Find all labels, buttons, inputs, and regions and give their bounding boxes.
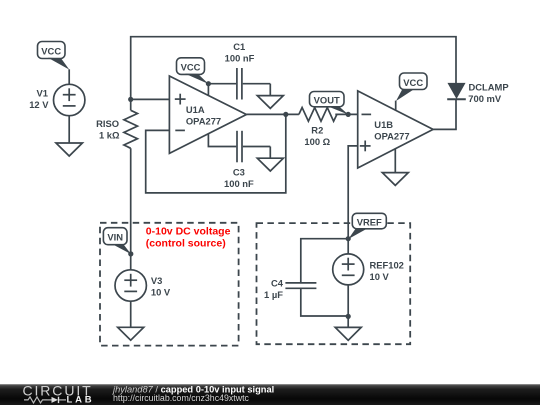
svg-text:10 V: 10 V <box>151 286 171 297</box>
node VOUT junction dot <box>346 112 351 117</box>
svg-text:VREF: VREF <box>357 216 382 227</box>
node REF102 ground junction dot <box>346 314 351 319</box>
wire R2 to U1B - input <box>335 113 357 115</box>
voltage source V3 <box>115 270 171 328</box>
ground at C1 <box>257 96 283 109</box>
svg-text:U1B: U1B <box>374 119 393 130</box>
ground at C3 <box>257 158 283 171</box>
svg-text:C3: C3 <box>233 167 245 178</box>
svg-text:REF102: REF102 <box>370 259 404 270</box>
svg-text:0-10v DC voltage: 0-10v DC voltage <box>146 226 231 238</box>
svg-text:OPA277: OPA277 <box>186 116 221 127</box>
svg-text:100 Ω: 100 Ω <box>304 136 330 147</box>
node VIN junction dot <box>128 251 133 256</box>
svg-text:C4: C4 <box>271 277 284 288</box>
ground below V3 <box>118 327 144 340</box>
wire C3 to ground <box>269 147 271 159</box>
svg-text:VCC: VCC <box>41 46 61 57</box>
diode DCLAMP <box>447 82 508 104</box>
op-amp U1B <box>358 91 433 168</box>
node U1A VCC junction dot <box>206 81 211 86</box>
svg-text:VOUT: VOUT <box>314 94 340 105</box>
svg-text:V3: V3 <box>151 275 162 286</box>
svg-text:LAB: LAB <box>67 395 95 405</box>
flag VCC at U1B <box>396 73 427 101</box>
voltage source V1 <box>29 69 85 143</box>
wire U1A feedback loop <box>146 114 286 192</box>
capacitor C3 <box>224 131 270 189</box>
node VREF junction dot <box>346 236 351 241</box>
svg-text:10 V: 10 V <box>370 271 390 282</box>
svg-text:12 V: 12 V <box>29 99 49 110</box>
flag VCC at V1 <box>38 42 70 70</box>
footer bar <box>0 384 540 405</box>
flag VREF <box>348 213 386 239</box>
dashed box control source <box>100 223 239 346</box>
wire U1A top power pin <box>207 84 209 96</box>
footer title text <box>111 384 274 403</box>
svg-text:RISO: RISO <box>96 118 119 129</box>
svg-text:VCC: VCC <box>181 62 201 73</box>
op-amp U1A <box>169 76 246 153</box>
svg-text:VCC: VCC <box>403 77 423 88</box>
capacitor C4 <box>264 239 348 316</box>
flag VOUT <box>310 92 349 115</box>
svg-text:(control source): (control source) <box>146 238 226 250</box>
svg-text:C1: C1 <box>233 41 245 52</box>
wire U1B top power pin <box>395 101 397 111</box>
wire RISO down to V3 <box>130 148 132 270</box>
svg-text:100 nF: 100 nF <box>225 53 255 64</box>
svg-text:OPA277: OPA277 <box>374 130 409 141</box>
svg-text:R2: R2 <box>311 124 323 135</box>
wire U1A output <box>246 113 299 115</box>
dashed box reference <box>257 223 411 344</box>
wire U1A bottom power pin <box>208 134 236 147</box>
wire node A to U1A + input <box>131 98 170 100</box>
svg-text:VIN: VIN <box>107 232 123 243</box>
svg-text:U1A: U1A <box>186 104 205 115</box>
node A junction dot <box>128 97 133 102</box>
footer logo CIRCUIT LAB <box>23 383 95 405</box>
flag VIN <box>103 228 131 255</box>
svg-text:1 µF: 1 µF <box>264 289 283 300</box>
wire diode to U1B output <box>433 99 456 129</box>
resistor RISO <box>96 99 137 148</box>
svg-text:V1: V1 <box>37 87 48 98</box>
wire C1 to ground <box>269 84 271 96</box>
flag VCC at U1A <box>177 58 209 84</box>
wire U1B + input down to VREF <box>348 146 358 239</box>
wire U1B bottom power pin <box>394 149 396 173</box>
svg-text:DCLAMP: DCLAMP <box>469 82 509 93</box>
resistor R2 <box>299 108 337 148</box>
label red text <box>146 226 231 250</box>
svg-text:700 mV: 700 mV <box>468 93 502 104</box>
ground at U1B <box>382 173 408 186</box>
svg-text:1 kΩ: 1 kΩ <box>99 130 120 141</box>
wire top feedback horizontal <box>131 37 456 100</box>
svg-text:http://circuitlab.com/cnz3hc49: http://circuitlab.com/cnz3hc49xtwtc <box>113 393 250 403</box>
ground below REF102 <box>335 327 361 340</box>
svg-text:100 nF: 100 nF <box>224 178 254 189</box>
ground below V1 <box>56 143 82 156</box>
node U1A output junction dot <box>283 112 288 117</box>
voltage source REF102 <box>333 239 404 328</box>
capacitor C1 <box>208 41 270 99</box>
